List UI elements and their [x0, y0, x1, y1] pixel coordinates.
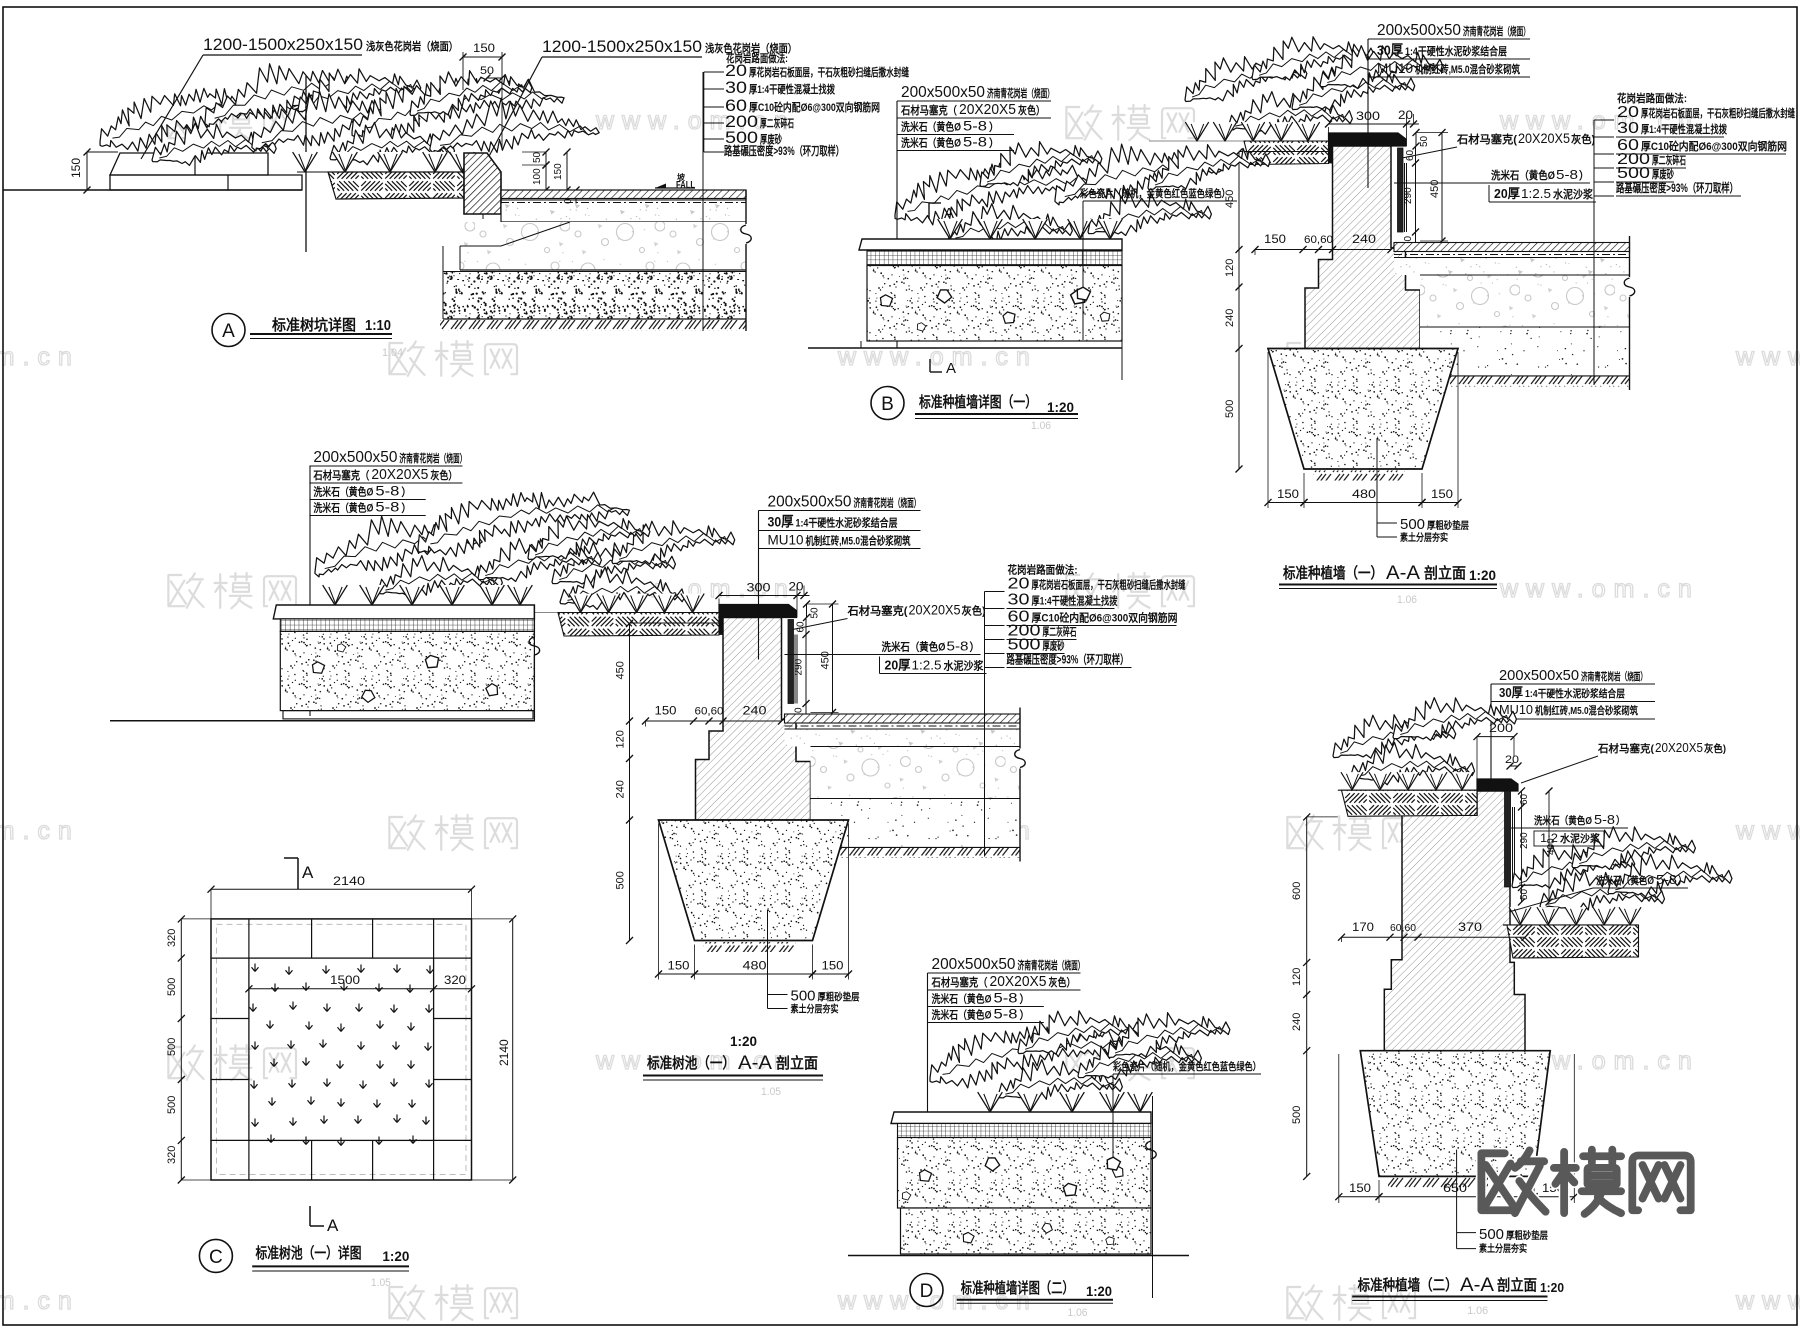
section B A-A cut marks: [928, 203, 930, 219]
svg-text:水泥沙浆: 水泥沙浆: [944, 659, 985, 673]
svg-text:www.om.cn: www.om.cn: [1735, 817, 1800, 845]
svg-text:500: 500: [791, 988, 816, 1005]
svg-text:）: ）: [1579, 169, 1589, 182]
concrete layer with steps: [460, 222, 746, 270]
svg-text:石材马塞克（: 石材马塞克（: [931, 975, 988, 989]
svg-text:1.05: 1.05: [761, 1086, 781, 1098]
TR pavement layers: [1394, 243, 1630, 252]
section D ground line: [848, 1255, 1189, 1257]
MID bottom dims: [658, 824, 660, 980]
section C ring joints: [249, 958, 434, 1140]
section C dim 1500/320: [249, 988, 434, 990]
svg-text:洗米石（黄色Ø: 洗米石（黄色Ø: [882, 640, 946, 654]
grass tufts on planting soil: [293, 152, 318, 172]
svg-text:花岗岩路面做法:: 花岗岩路面做法:: [1008, 563, 1078, 577]
svg-text:150: 150: [822, 959, 844, 973]
section D break symbol: [1146, 1141, 1157, 1159]
MID dim 300/20: [719, 595, 797, 597]
svg-text:厚花岗岩石板面层，干石灰粗砂扫缝后撒水封缝: 厚花岗岩石板面层，干石灰粗砂扫缝后撒水封缝: [1641, 106, 1795, 120]
BR right small dims: [1521, 791, 1523, 902]
svg-text:150: 150: [1431, 487, 1453, 501]
svg-text:洗米石（黄色Ø: 洗米石（黄色Ø: [1491, 168, 1555, 182]
svg-text:150: 150: [1349, 1181, 1371, 1195]
svg-text:20X20X5: 20X20X5: [371, 466, 428, 483]
svg-text:480: 480: [743, 959, 767, 973]
svg-text:320: 320: [166, 1146, 178, 1164]
mid-left bushes: [307, 500, 484, 582]
svg-text:素土分层夯实: 素土分层夯实: [791, 1003, 839, 1016]
TR footing: [1268, 349, 1458, 470]
svg-text:200x500x50: 200x500x50: [768, 494, 852, 511]
svg-text:）: ）: [1020, 993, 1030, 1006]
BR dim 200/20: [1477, 736, 1514, 738]
svg-text:60,60: 60,60: [695, 706, 724, 718]
BR label leader: [1490, 684, 1492, 783]
section D grass tufts: [978, 1092, 1003, 1112]
MID wall cap (black granite): [719, 605, 797, 618]
svg-text:1.04: 1.04: [382, 347, 403, 359]
mid-left grass tufts: [323, 585, 348, 605]
TR bedding labels: [1376, 438, 1378, 537]
MID grass tufts: [569, 594, 592, 613]
svg-text:50: 50: [810, 607, 821, 619]
MID mosaic facing strip: [788, 620, 794, 704]
MID bushes: [547, 532, 676, 591]
svg-text:5-8: 5-8: [1556, 167, 1578, 182]
svg-text:1500: 1500: [330, 973, 360, 987]
svg-text:500: 500: [166, 1096, 178, 1114]
section B washed stone band: [867, 266, 1122, 342]
svg-text:济南青花岗岩（烧面）: 济南青花岗岩（烧面）: [1018, 958, 1085, 972]
svg-text:厚二灰碎石: 厚二灰碎石: [1043, 625, 1077, 639]
svg-text:500: 500: [1224, 400, 1236, 418]
section B right extension line: [1121, 239, 1123, 380]
section B grass tufts: [938, 219, 963, 239]
svg-text:厚粗砂垫层: 厚粗砂垫层: [818, 991, 860, 1004]
svg-text:2140: 2140: [333, 874, 365, 888]
svg-text:厚花岗岩石板面层，干石灰粗砂扫缝后撒水封缝: 厚花岗岩石板面层，干石灰粗砂扫缝后撒水封缝: [749, 65, 909, 79]
section D washed stone band 2: [901, 1208, 1152, 1254]
svg-text:240: 240: [615, 780, 627, 798]
svg-text:机制红砖,M5.0混合砂浆砌筑: 机制红砖,M5.0混合砂浆砌筑: [1535, 704, 1638, 717]
svg-text:650: 650: [1443, 1181, 1467, 1195]
BR left soil: [1338, 789, 1477, 791]
MID right small dim chain: [806, 604, 808, 618]
BR mid dims 170/60/60/370: [1342, 936, 1526, 938]
svg-text:灰色）: 灰色）: [1018, 103, 1045, 117]
svg-text:厚二灰碎石: 厚二灰碎石: [760, 116, 794, 130]
svg-text:1:20: 1:20: [1540, 1280, 1564, 1295]
svg-text:路基碾压密度>93%（环刀取样）: 路基碾压密度>93%（环刀取样）: [1616, 180, 1738, 195]
svg-text:200x500x50: 200x500x50: [932, 956, 1016, 973]
BR wall cap: [1477, 779, 1518, 791]
mid-left mosaic band: [280, 619, 534, 632]
TR mid dim 150/60/60/240: [1255, 249, 1391, 251]
svg-text:5-8: 5-8: [375, 483, 399, 499]
svg-text:20厚: 20厚: [1494, 186, 1520, 201]
svg-text:1200-1500x250x150: 1200-1500x250x150: [542, 37, 702, 56]
section C outer square: [211, 919, 472, 1180]
MID mid dim 150/60/60/240: [646, 720, 782, 722]
svg-text:1:2.5: 1:2.5: [912, 658, 942, 673]
mid-left label leader: [309, 466, 311, 716]
svg-text:厚C10砼内配Ø6@300双向钢筋网: 厚C10砼内配Ø6@300双向钢筋网: [1641, 139, 1787, 153]
svg-text:标准树池（一）详图: 标准树池（一）详图: [255, 1244, 362, 1262]
svg-text:A: A: [946, 360, 956, 377]
svg-text:1:20: 1:20: [1086, 1283, 1112, 1299]
svg-text:1:20: 1:20: [1047, 399, 1074, 415]
svg-text:20X20X5: 20X20X5: [990, 973, 1047, 990]
svg-text:标准树坑详图: 标准树坑详图: [271, 316, 356, 334]
svg-text:200x500x50: 200x500x50: [1499, 667, 1579, 684]
svg-text:济南青花岗岩（烧面）: 济南青花岗岩（烧面）: [399, 451, 466, 465]
TR pavement break edge: [1629, 236, 1631, 277]
svg-text:170: 170: [1352, 920, 1374, 934]
svg-text:150: 150: [553, 163, 564, 180]
TR grass tufts: [1185, 122, 1208, 141]
svg-text:）: ）: [970, 641, 980, 654]
ground line left: [3, 189, 302, 191]
section B mosaic band: [867, 251, 1122, 265]
BR bedding labels: [1456, 1150, 1458, 1249]
TR left dim chain: [1238, 152, 1240, 469]
svg-text:www.om.cn: www.om.cn: [0, 817, 80, 845]
svg-text:D: D: [920, 1281, 934, 1302]
svg-text:30厚: 30厚: [1499, 685, 1523, 700]
svg-text:50: 50: [480, 65, 494, 77]
mid-left break edge: [533, 605, 535, 637]
section C left dim chain: [180, 919, 182, 1180]
svg-text:500: 500: [1479, 1226, 1504, 1243]
section B bushes: [889, 148, 1109, 229]
svg-text:500: 500: [1400, 516, 1425, 533]
svg-text:剖立面: 剖立面: [1497, 1276, 1537, 1294]
svg-text:厚花岗岩石板面层，干石灰粗砂扫缝后撒水封缝: 厚花岗岩石板面层，干石灰粗砂扫缝后撒水封缝: [1032, 578, 1186, 592]
svg-text:浅灰色花岗岩（烧面）: 浅灰色花岗岩（烧面）: [366, 39, 458, 53]
svg-text:www.om.cn: www.om.cn: [0, 343, 80, 371]
TR right small dim chain: [1415, 133, 1417, 147]
pavement right break edge: [745, 190, 747, 224]
svg-text:20X20X5: 20X20X5: [1518, 130, 1570, 146]
svg-text:5-8: 5-8: [375, 499, 399, 515]
svg-text:500: 500: [166, 1038, 178, 1056]
svg-text:标准种植墙（二）: 标准种植墙（二）: [1357, 1276, 1458, 1294]
svg-text:机制红砖,M5.0混合砂浆砌筑: 机制红砖,M5.0混合砂浆砌筑: [1415, 62, 1520, 76]
title A: [212, 314, 245, 347]
svg-text:洗米石（黄色Ø: 洗米石（黄色Ø: [932, 992, 992, 1006]
mid-left ground line: [110, 720, 535, 722]
section C cut mark A bottom: [309, 1206, 311, 1226]
section C title: [199, 1239, 232, 1272]
svg-text:400: 400: [1546, 838, 1557, 855]
svg-text:60: 60: [1519, 793, 1530, 805]
svg-text:厚C10砼内配Ø6@300双向钢筋网: 厚C10砼内配Ø6@300双向钢筋网: [1032, 611, 1178, 625]
notes leader lines: [703, 72, 705, 152]
MID pavement layers: [785, 714, 1021, 723]
svg-text:290: 290: [1519, 832, 1530, 849]
mid-left lower band: [283, 711, 533, 719]
MID left dim chain: [629, 624, 631, 941]
MID footing: [659, 820, 849, 941]
subgrade hatch marks: [440, 320, 746, 331]
svg-text:240: 240: [1224, 309, 1236, 327]
TR planting soil left: [1149, 140, 1329, 142]
svg-text:370: 370: [1458, 920, 1482, 934]
BR wall body: [1384, 791, 1525, 1051]
svg-text:标准树池（一）: 标准树池（一）: [646, 1054, 735, 1072]
svg-text:洗米石（黄色Ø: 洗米石（黄色Ø: [1534, 814, 1592, 827]
svg-text:5-8: 5-8: [947, 639, 969, 654]
svg-text:500: 500: [166, 978, 178, 996]
svg-text:FALL: FALL: [676, 180, 695, 191]
svg-text:A-A: A-A: [1386, 563, 1420, 584]
svg-text:石材马塞克(: 石材马塞克(: [1456, 132, 1517, 146]
MID bedding labels: [767, 910, 769, 1009]
BR right bushes: [1506, 832, 1636, 895]
section D wall cap: [891, 1112, 1151, 1124]
section B label leader: [896, 101, 898, 348]
MID wall body (brick hatch): [696, 618, 811, 821]
svg-text:济南青花岗岩（烧面）: 济南青花岗岩（烧面）: [987, 86, 1054, 100]
svg-text:1.05: 1.05: [371, 1277, 391, 1289]
svg-text:240: 240: [1352, 232, 1376, 246]
svg-text:500: 500: [615, 871, 627, 889]
svg-text:30: 30: [1008, 592, 1030, 609]
svg-text:500: 500: [1008, 637, 1041, 654]
MID washed stone label: [785, 654, 981, 656]
svg-text:灰色): 灰色): [962, 604, 986, 618]
svg-text:450: 450: [820, 651, 832, 669]
svg-text:）: ）: [1678, 874, 1687, 887]
svg-text:A: A: [327, 1216, 339, 1235]
svg-text:450: 450: [615, 661, 627, 679]
section A bushes: [94, 72, 315, 157]
svg-text:石材马塞克(: 石材马塞克(: [846, 604, 907, 618]
svg-text:厚1:4干硬性混凝土找拨: 厚1:4干硬性混凝土找拨: [1032, 594, 1119, 608]
svg-text:A: A: [302, 863, 314, 882]
svg-text:www.om.cn: www.om.cn: [1735, 1287, 1800, 1315]
mid-left washed stone band: [280, 631, 534, 710]
svg-text:1:4干硬性水泥砂浆结合层: 1:4干硬性水泥砂浆结合层: [796, 516, 898, 530]
BR footing: [1360, 1051, 1550, 1177]
svg-text:花岗岩路面做法:: 花岗岩路面做法:: [1617, 91, 1687, 105]
svg-text:www.om.cn: www.om.cn: [1735, 343, 1800, 371]
MID pavement break edge: [1019, 708, 1021, 749]
svg-text:20: 20: [1617, 104, 1639, 121]
svg-text:厚废砂: 厚废砂: [1652, 167, 1674, 181]
svg-text:150: 150: [655, 704, 677, 718]
big watermark logo 欧模网: [1481, 1150, 1545, 1213]
svg-text:水泥沙浆: 水泥沙浆: [1559, 832, 1600, 845]
svg-text:1:20: 1:20: [382, 1248, 409, 1264]
svg-text:5-8: 5-8: [1594, 812, 1615, 827]
svg-text:30厚: 30厚: [768, 514, 794, 530]
svg-text:标准种植墙详图（一）: 标准种植墙详图（一）: [918, 393, 1037, 411]
svg-text:1:20: 1:20: [1469, 567, 1496, 583]
TR wall body (brick hatch): [1305, 146, 1420, 349]
svg-text:彩色瓷片（随机，金黄色红色蓝色绿色）: 彩色瓷片（随机，金黄色红色蓝色绿色）: [1079, 187, 1230, 200]
svg-text:MU10: MU10: [768, 532, 804, 548]
svg-text:MU10: MU10: [1499, 702, 1533, 717]
svg-text:1.06: 1.06: [1397, 594, 1417, 606]
section A: curb stones: [110, 153, 268, 175]
svg-text:5-8: 5-8: [994, 990, 1018, 1006]
svg-text:水泥沙浆: 水泥沙浆: [1553, 187, 1594, 201]
svg-text:30厚: 30厚: [1377, 42, 1403, 58]
svg-text:240: 240: [743, 704, 767, 718]
svg-text:灰色): 灰色): [1704, 742, 1726, 755]
section D label leader: [927, 973, 929, 1213]
pavement top hatch strip: [501, 190, 746, 199]
svg-text:500: 500: [1291, 1106, 1303, 1124]
svg-text:150: 150: [1264, 232, 1286, 246]
svg-text:洗米石（黄色Ø: 洗米石（黄色Ø: [313, 485, 373, 499]
section B wall cap: [859, 239, 1122, 250]
svg-text:济南青花岗岩（烧面）: 济南青花岗岩（烧面）: [1581, 670, 1647, 683]
svg-text:厚粗砂垫层: 厚粗砂垫层: [1427, 519, 1469, 532]
svg-text:500: 500: [1617, 165, 1650, 182]
svg-text:厚粗砂垫层: 厚粗砂垫层: [1506, 1229, 1548, 1242]
vertical reference line: [305, 76, 307, 252]
svg-text:洗米石（黄色Ø: 洗米石（黄色Ø: [901, 136, 961, 150]
svg-text:5-8: 5-8: [1656, 872, 1677, 887]
svg-text:厚二灰碎石: 厚二灰碎石: [1652, 153, 1686, 167]
section C cut mark A top: [284, 857, 298, 859]
svg-text:20: 20: [1505, 754, 1519, 766]
svg-text:120: 120: [1224, 259, 1236, 277]
svg-text:）: ）: [989, 137, 999, 150]
section C inner dashed border: [217, 924, 467, 1174]
section D title: [910, 1274, 943, 1307]
svg-text:灰色）: 灰色）: [1049, 975, 1076, 989]
svg-text:2140: 2140: [497, 1039, 511, 1066]
svg-text:20X20X5: 20X20X5: [1655, 740, 1703, 755]
svg-text:5-8: 5-8: [963, 134, 987, 150]
TR leader centerline: [1367, 39, 1369, 188]
svg-text:）: ）: [1020, 1009, 1030, 1022]
svg-text:www.om.cn: www.om.cn: [837, 343, 1038, 371]
TR mosaic facing strip: [1398, 148, 1404, 232]
svg-text:标准种植墙（一）: 标准种植墙（一）: [1282, 564, 1383, 582]
svg-text:B: B: [881, 394, 894, 415]
SECTION: tree pool (1) A-A cross-section (middle): [463, 494, 1186, 1016]
svg-text:50: 50: [1419, 135, 1430, 147]
section D washed stone band 1: [898, 1138, 1152, 1209]
TR dim 300/20: [1329, 123, 1407, 125]
svg-text:厚1:4干硬性混凝土找拨: 厚1:4干硬性混凝土找拨: [749, 82, 836, 96]
svg-text:50: 50: [532, 151, 543, 163]
svg-text:20: 20: [1398, 108, 1413, 122]
svg-text:剖立面: 剖立面: [776, 1054, 818, 1072]
svg-text:A: A: [222, 321, 235, 342]
svg-text:1:2.5: 1:2.5: [1521, 186, 1551, 201]
svg-text:120: 120: [1291, 968, 1303, 986]
BR right soil (lower bed): [1503, 924, 1639, 926]
vertical extension x=703: [702, 72, 704, 331]
svg-text:洗米石（黄色Ø: 洗米石（黄色Ø: [1596, 874, 1654, 887]
MID dim 450 outer: [832, 604, 834, 713]
svg-text:www.om.cn: www.om.cn: [0, 1287, 80, 1315]
svg-text:灰色): 灰色): [1571, 132, 1595, 146]
section B title: [871, 387, 904, 420]
svg-text:120: 120: [615, 730, 627, 748]
svg-text:素土分层夯实: 素土分层夯实: [1400, 531, 1448, 544]
svg-text:洗米石（黄色Ø: 洗米石（黄色Ø: [901, 120, 961, 134]
svg-text:150: 150: [69, 158, 83, 178]
dimension 50: [487, 77, 502, 79]
section C right dim 2140: [512, 919, 514, 1180]
svg-text:450: 450: [1429, 180, 1441, 198]
svg-text:路基碾压密度>93%（环刀取样）: 路基碾压密度>93%（环刀取样）: [724, 143, 844, 158]
svg-text:厚1:4干硬性混凝土找拨: 厚1:4干硬性混凝土找拨: [1641, 122, 1728, 136]
FALL arrow: [655, 184, 666, 189]
svg-text:C: C: [209, 1247, 223, 1268]
curb stone section (hatched): [464, 153, 501, 214]
svg-text:）: ）: [401, 502, 411, 515]
svg-text:30: 30: [725, 78, 747, 97]
svg-text:480: 480: [1352, 487, 1376, 501]
svg-text:150: 150: [473, 41, 495, 55]
section D right extension: [1152, 1096, 1154, 1298]
BR left dim chain: [1306, 817, 1308, 1177]
svg-text:5-8: 5-8: [994, 1006, 1018, 1022]
section D mosaic band: [898, 1124, 1152, 1138]
BR mosaic strip: [1505, 791, 1511, 887]
svg-text:20厚: 20厚: [885, 658, 911, 673]
TR dim 450 outer: [1441, 133, 1443, 242]
svg-text:洗米石（黄色Ø: 洗米石（黄色Ø: [932, 1008, 992, 1022]
svg-text:5-8: 5-8: [963, 118, 987, 134]
svg-text:320: 320: [444, 973, 466, 987]
svg-text:MU10: MU10: [1377, 60, 1413, 76]
TR wall cap (black granite): [1329, 133, 1407, 146]
svg-text:20: 20: [1008, 576, 1030, 593]
dimension 150 top: [463, 56, 502, 58]
svg-text:600: 600: [1291, 882, 1303, 900]
svg-text:）: ）: [1616, 814, 1625, 827]
svg-text:剖立面: 剖立面: [1424, 564, 1466, 582]
svg-text:机制红砖,M5.0混合砂浆砌筑: 机制红砖,M5.0混合砂浆砌筑: [806, 534, 911, 548]
svg-text:20X20X5: 20X20X5: [959, 101, 1016, 118]
svg-text:）: ）: [401, 486, 411, 499]
svg-text:200x500x50: 200x500x50: [1377, 22, 1461, 39]
watermark layer: [168, 105, 203, 139]
section C top dim 2140: [211, 888, 472, 890]
svg-text:320: 320: [166, 929, 178, 947]
svg-text:石材马塞克(: 石材马塞克(: [1597, 742, 1654, 755]
svg-text:1200-1500x250x150: 1200-1500x250x150: [203, 35, 363, 54]
MID leader centerline: [758, 511, 760, 660]
TR bushes: [1178, 42, 1309, 109]
svg-text:A-A: A-A: [738, 1053, 772, 1074]
svg-text:路基碾压密度>93%（环刀取样）: 路基碾压密度>93%（环刀取样）: [1007, 652, 1129, 667]
mid-left wall cap: [273, 605, 534, 619]
svg-text:洗米石（黄色Ø: 洗米石（黄色Ø: [313, 501, 373, 515]
svg-text:A-A: A-A: [1460, 1275, 1494, 1296]
svg-text:100: 100: [532, 168, 543, 185]
svg-text:300: 300: [1356, 109, 1380, 123]
svg-text:1:4干硬性水泥砂浆结合层: 1:4干硬性水泥砂浆结合层: [1405, 44, 1507, 58]
svg-text:1:10: 1:10: [365, 317, 391, 334]
svg-text:50: 50: [1519, 888, 1530, 900]
small dims 50/100/150/1000: [545, 152, 547, 165]
svg-text:60,60: 60,60: [1304, 234, 1333, 246]
dense sand layer: [443, 272, 746, 320]
svg-text:30: 30: [1617, 120, 1639, 137]
svg-text:1:20: 1:20: [730, 1033, 757, 1049]
svg-text:www.om.cn: www.om.cn: [1499, 575, 1700, 603]
svg-text:60,60: 60,60: [1390, 923, 1416, 934]
